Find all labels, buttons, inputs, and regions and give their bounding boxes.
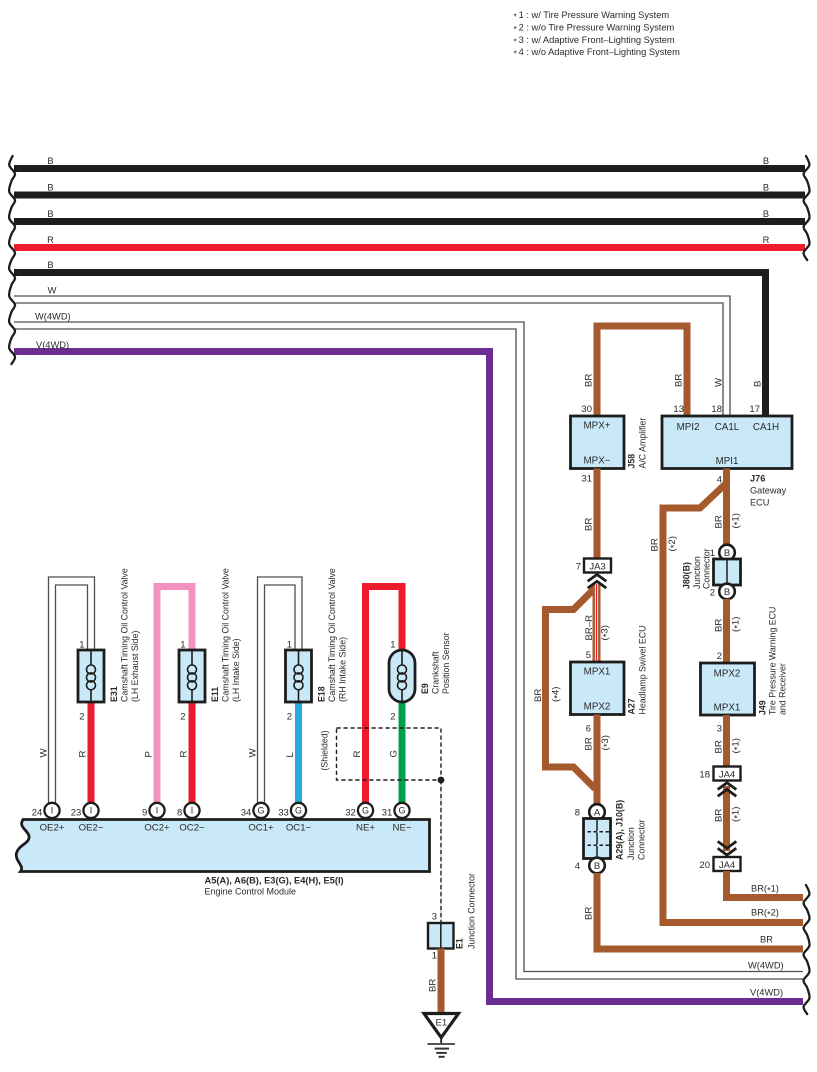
svg-text:Connector: Connector (702, 548, 712, 589)
svg-text:34: 34 (241, 808, 252, 819)
svg-text:OE2−: OE2− (79, 823, 104, 834)
svg-text:R: R (352, 751, 363, 758)
svg-text:E11: E11 (210, 687, 220, 702)
svg-text:OC2+: OC2+ (144, 823, 170, 834)
svg-text:30: 30 (581, 404, 592, 415)
svg-text:W: W (248, 748, 259, 758)
svg-text:G: G (398, 806, 405, 816)
svg-text:V(4WD): V(4WD) (750, 988, 783, 998)
svg-text:(*2): (*2) (667, 536, 680, 551)
svg-text:B: B (763, 209, 769, 219)
svg-text:BR: BR (674, 374, 685, 387)
svg-text:18: 18 (699, 770, 710, 781)
svg-text:33: 33 (278, 808, 289, 819)
svg-text:E9: E9 (420, 683, 430, 694)
svg-text:J49: J49 (758, 700, 768, 715)
svg-text:E1: E1 (455, 938, 465, 949)
svg-text:Camshaft Timing Oil Control Va: Camshaft Timing Oil Control Valve (327, 568, 337, 702)
svg-text:E1: E1 (435, 1018, 447, 1029)
svg-text:BR: BR (428, 979, 439, 992)
svg-text:(*4): (*4) (551, 687, 564, 702)
svg-text:A5(A), A6(B), E3(G), E4(H), E5: A5(A), A6(B), E3(G), E4(H), E5(I) (205, 875, 344, 885)
svg-text:B: B (47, 156, 53, 166)
svg-text:B: B (47, 209, 53, 219)
svg-text:2: 2 (717, 651, 722, 662)
svg-text:31: 31 (581, 474, 592, 485)
svg-text:JA4: JA4 (719, 769, 735, 780)
svg-text:E31: E31 (109, 686, 119, 702)
svg-text:CA1H: CA1H (753, 422, 779, 433)
svg-text:1: 1 (432, 951, 437, 962)
svg-text:3: 3 (717, 724, 722, 735)
svg-text:A27: A27 (627, 698, 637, 714)
svg-text:I: I (90, 806, 93, 816)
svg-text:MPX−: MPX− (584, 455, 611, 466)
svg-text:1: 1 (390, 640, 395, 651)
svg-text:(LH Intake Side): (LH Intake Side) (231, 638, 241, 702)
svg-text:B: B (47, 260, 53, 270)
svg-text:B: B (763, 156, 769, 166)
svg-text:Camshaft Timing Oil Control Va: Camshaft Timing Oil Control Valve (120, 568, 130, 702)
svg-text:9: 9 (142, 808, 147, 819)
svg-text:MPX+: MPX+ (584, 421, 611, 432)
svg-text:OE2+: OE2+ (40, 823, 65, 834)
svg-text:G: G (362, 806, 369, 816)
svg-text:(*3): (*3) (600, 625, 613, 640)
svg-text:8: 8 (575, 808, 580, 819)
svg-text:BR: BR (714, 809, 725, 822)
svg-text:NE−: NE− (393, 823, 412, 834)
svg-text:Junction: Junction (692, 556, 702, 589)
svg-text:W: W (714, 377, 725, 387)
svg-text:1: 1 (180, 640, 185, 651)
svg-text:B: B (724, 587, 730, 598)
svg-text:I: I (191, 806, 194, 816)
svg-text:Tire Pressure Warning ECU: Tire Pressure Warning ECU (768, 607, 778, 715)
svg-text:ECU: ECU (750, 498, 769, 508)
svg-text:B: B (724, 548, 730, 559)
svg-text:J80(B): J80(B) (682, 562, 692, 589)
svg-text:Junction Connector: Junction Connector (467, 873, 477, 949)
svg-text:3: 3 (432, 912, 437, 923)
svg-text:I: I (51, 806, 54, 816)
svg-text:A: A (594, 807, 601, 818)
svg-text:BR: BR (760, 935, 773, 945)
svg-text:2: 2 (180, 712, 185, 723)
svg-text:(*1): (*1) (731, 807, 744, 822)
svg-text:A/C Amplifier: A/C Amplifier (638, 418, 648, 469)
svg-text:(*1): (*1) (731, 738, 744, 753)
svg-text:BR: BR (584, 737, 595, 750)
svg-text:5: 5 (586, 650, 591, 661)
svg-text:R: R (179, 751, 190, 758)
svg-text:8: 8 (177, 808, 182, 819)
svg-text:I: I (156, 806, 159, 816)
svg-text:W(4WD): W(4WD) (35, 312, 71, 322)
svg-text:and Receiver: and Receiver (778, 663, 788, 715)
svg-text:Junction: Junction (626, 827, 636, 860)
svg-text:BR: BR (584, 374, 595, 387)
svg-text:MPI1: MPI1 (716, 456, 739, 467)
svg-text:BR: BR (533, 689, 544, 702)
svg-text:1: 1 (287, 640, 292, 651)
svg-text:W: W (48, 286, 57, 296)
svg-text:JA4: JA4 (719, 860, 735, 871)
svg-text:Camshaft Timing Oil Control Va: Camshaft Timing Oil Control Valve (221, 568, 231, 702)
svg-text:B: B (594, 861, 600, 872)
svg-text:BR: BR (714, 515, 725, 528)
svg-text:J58: J58 (627, 454, 637, 469)
svg-text:L: L (285, 752, 296, 758)
svg-text:MPX1: MPX1 (714, 702, 741, 713)
svg-text:JA3: JA3 (589, 561, 605, 572)
svg-text:Headlamp Swivel ECU: Headlamp Swivel ECU (638, 626, 648, 715)
svg-text:A29(A), J10(B): A29(A), J10(B) (615, 800, 625, 860)
svg-text:B: B (763, 183, 769, 193)
svg-text:2: 2 (79, 712, 84, 723)
svg-text:2: 2 (390, 712, 395, 723)
svg-text:OC1+: OC1+ (248, 823, 274, 834)
svg-text:4: 4 (575, 861, 580, 872)
svg-text:Position Sensor: Position Sensor (441, 632, 451, 694)
svg-text:R: R (47, 235, 54, 245)
svg-text:BR: BR (714, 740, 725, 753)
svg-text:Crankshaft: Crankshaft (431, 651, 441, 694)
svg-text:MPX2: MPX2 (584, 701, 611, 712)
svg-text:Gateway: Gateway (750, 486, 787, 496)
svg-text:13: 13 (673, 404, 684, 415)
svg-text:(*1): (*1) (731, 617, 744, 632)
svg-text:20: 20 (699, 860, 710, 871)
svg-text:BR: BR (714, 619, 725, 632)
svg-text:MPX2: MPX2 (714, 669, 741, 680)
svg-text:OC2−: OC2− (179, 823, 205, 834)
svg-text:BR–R: BR–R (584, 615, 595, 641)
svg-text:BR: BR (584, 518, 595, 531)
svg-text:(Shielded): (Shielded) (320, 730, 330, 770)
svg-text:31: 31 (382, 808, 393, 819)
svg-text:32: 32 (345, 808, 356, 819)
svg-text:R: R (78, 751, 89, 758)
svg-text:24: 24 (32, 808, 43, 819)
svg-text:(LH Exhaust Side): (LH Exhaust Side) (130, 631, 140, 702)
svg-text:OC1−: OC1− (286, 823, 312, 834)
svg-text:W(4WD): W(4WD) (748, 961, 784, 971)
svg-text:1: 1 (79, 640, 84, 651)
svg-text:G: G (295, 806, 302, 816)
svg-text:B: B (47, 183, 53, 193)
svg-text:(*1): (*1) (731, 513, 744, 528)
svg-text:*1 : w/ Tire Pressure Warning: *1 : w/ Tire Pressure Warning System (514, 10, 670, 22)
svg-text:J76: J76 (750, 474, 765, 484)
svg-text:17: 17 (749, 404, 760, 415)
svg-text:*3 : w/ Adaptive Front–Lightin: *3 : w/ Adaptive Front–Lighting System (514, 35, 675, 47)
svg-text:6: 6 (586, 724, 591, 735)
svg-text:23: 23 (71, 808, 82, 819)
svg-text:CA1L: CA1L (715, 422, 740, 433)
svg-text:BR: BR (650, 538, 661, 551)
svg-text:G: G (257, 806, 264, 816)
svg-text:*2 : w/o Tire Pressure Warning: *2 : w/o Tire Pressure Warning System (514, 23, 675, 35)
svg-text:B: B (753, 381, 764, 387)
svg-text:Engine Control Module: Engine Control Module (205, 887, 297, 897)
svg-text:R: R (763, 235, 770, 245)
svg-text:*4 : w/o Adaptive Front–Lighti: *4 : w/o Adaptive Front–Lighting System (514, 47, 681, 59)
svg-text:7: 7 (576, 562, 581, 573)
svg-text:P: P (144, 751, 155, 757)
svg-text:V(4WD): V(4WD) (36, 340, 69, 350)
svg-text:NE+: NE+ (356, 823, 375, 834)
svg-text:W: W (39, 748, 50, 758)
svg-text:2: 2 (287, 712, 292, 723)
svg-text:E18: E18 (317, 686, 327, 702)
svg-text:BR: BR (584, 907, 595, 920)
svg-text:MPX1: MPX1 (584, 667, 611, 678)
svg-text:(RH Intake Side): (RH Intake Side) (338, 637, 348, 702)
svg-text:(*3): (*3) (600, 735, 613, 750)
svg-text:18: 18 (711, 404, 722, 415)
svg-text:Connector: Connector (637, 819, 647, 860)
svg-text:MPI2: MPI2 (677, 422, 700, 433)
svg-text:G: G (389, 750, 400, 757)
